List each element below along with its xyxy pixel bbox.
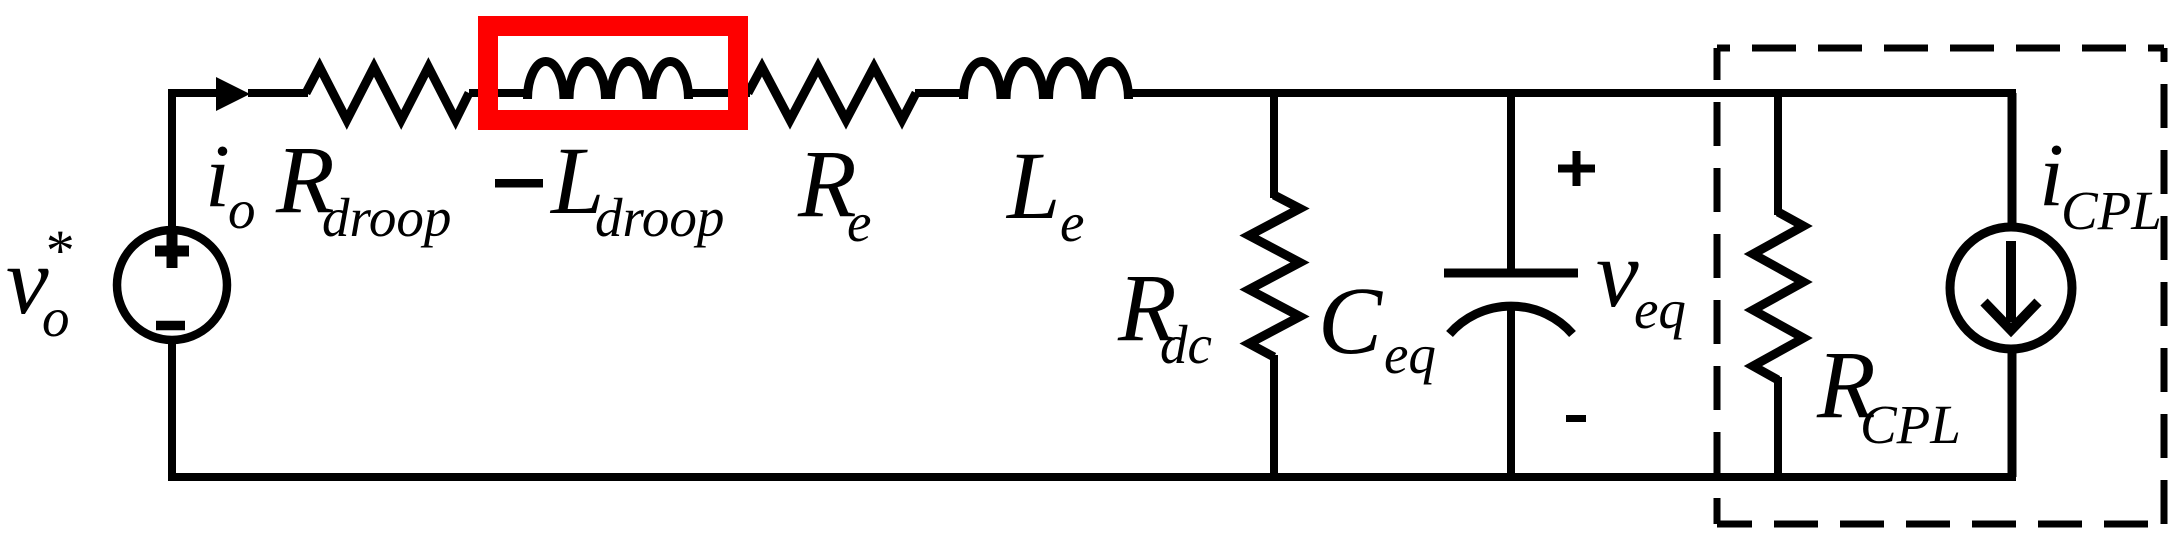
svg-text:L: L: [1005, 132, 1060, 239]
svg-text:i: i: [205, 127, 230, 226]
svg-text:o: o: [42, 287, 70, 348]
svg-text:CPL: CPL: [2061, 180, 2162, 241]
svg-text:e: e: [1060, 192, 1084, 253]
svg-text:*: *: [43, 218, 72, 283]
svg-text:e: e: [847, 192, 871, 253]
svg-text:C: C: [1318, 267, 1383, 374]
svg-text:v: v: [1596, 220, 1639, 327]
svg-text:o: o: [228, 179, 256, 240]
svg-text:droop: droop: [595, 187, 724, 248]
svg-text:eq: eq: [1634, 279, 1686, 340]
svg-text:dc: dc: [1160, 314, 1212, 375]
svg-text:CPL: CPL: [1860, 394, 1961, 455]
svg-text:droop: droop: [322, 187, 451, 248]
svg-text:eq: eq: [1384, 324, 1436, 385]
